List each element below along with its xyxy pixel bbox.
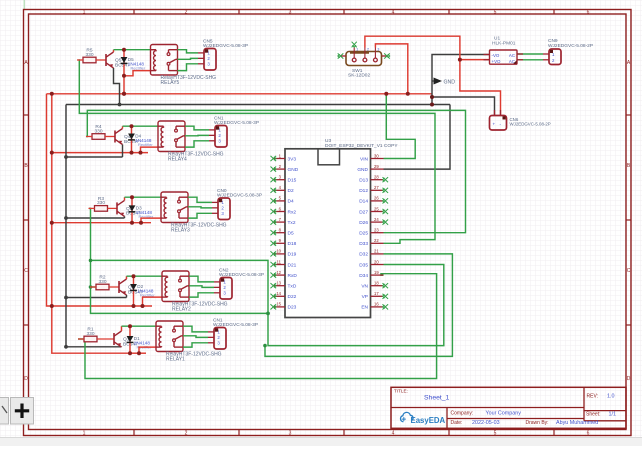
- svg-text:Sheet_1: Sheet_1: [424, 395, 450, 402]
- svg-text:D18: D18: [288, 241, 297, 247]
- svg-text:25: 25: [374, 206, 379, 211]
- svg-text:1: 1: [83, 431, 86, 437]
- svg-text:24: 24: [374, 217, 379, 222]
- svg-text:HLK-PM01: HLK-PM01: [492, 40, 516, 46]
- svg-text:29: 29: [374, 164, 379, 169]
- svg-text:RELAY2: RELAY2: [172, 306, 191, 312]
- svg-text:D19: D19: [288, 252, 297, 258]
- svg-text:REV:: REV:: [587, 394, 598, 400]
- svg-text:WJ2EDGVC-5.08-3P: WJ2EDGVC-5.08-3P: [214, 120, 259, 126]
- svg-text:13: 13: [276, 281, 281, 286]
- svg-text:1/1: 1/1: [609, 412, 617, 418]
- svg-text:Your Company: Your Company: [486, 410, 522, 416]
- svg-text:1: 1: [356, 48, 358, 52]
- svg-text:D12: D12: [359, 188, 368, 194]
- svg-text:D22: D22: [288, 294, 297, 300]
- svg-text:D14: D14: [359, 199, 368, 205]
- svg-text:RELAY5: RELAY5: [161, 80, 180, 86]
- svg-text:330: 330: [85, 52, 93, 58]
- svg-text:AC: AC: [509, 53, 515, 58]
- svg-text:17: 17: [374, 291, 379, 296]
- svg-text:D25: D25: [359, 231, 368, 237]
- svg-text:RxD: RxD: [288, 273, 298, 279]
- svg-text:1.0: 1.0: [607, 394, 615, 400]
- svg-text:3V3: 3V3: [288, 156, 297, 162]
- svg-text:3: 3: [377, 48, 379, 52]
- svg-text:12: 12: [276, 270, 281, 275]
- svg-text:GND: GND: [288, 167, 299, 173]
- svg-text:D: D: [627, 376, 631, 382]
- svg-text:16: 16: [374, 302, 379, 307]
- svg-text:2: 2: [185, 9, 188, 15]
- svg-text:330: 330: [94, 128, 102, 134]
- svg-text:Date:: Date:: [451, 420, 463, 426]
- svg-text:Sheet:: Sheet:: [586, 412, 600, 418]
- svg-text:22: 22: [374, 238, 379, 243]
- svg-text:D2: D2: [288, 188, 294, 194]
- svg-text:10: 10: [276, 249, 281, 254]
- svg-text:2: 2: [367, 48, 369, 52]
- svg-text:19: 19: [374, 270, 379, 275]
- svg-text:D21: D21: [288, 262, 297, 268]
- svg-text:D5: D5: [288, 231, 294, 237]
- svg-text:4: 4: [392, 431, 395, 437]
- svg-text:TxD: TxD: [288, 284, 297, 290]
- svg-text:SK-12D02: SK-12D02: [348, 73, 370, 79]
- svg-text:D26: D26: [359, 220, 368, 226]
- svg-text:VIN: VIN: [360, 156, 369, 162]
- svg-text:6: 6: [587, 9, 590, 15]
- svg-text:WJ2EDGVC-5.08-3P: WJ2EDGVC-5.08-3P: [219, 272, 264, 278]
- svg-text:EasyEDA: EasyEDA: [411, 416, 446, 425]
- svg-text:4: 4: [392, 9, 395, 15]
- svg-text:D33: D33: [359, 241, 368, 247]
- svg-text:+: +: [493, 122, 496, 127]
- svg-text:VP: VP: [362, 294, 368, 300]
- svg-text:2: 2: [185, 431, 188, 437]
- svg-text:D34: D34: [359, 273, 368, 279]
- svg-text:Drawn By:: Drawn By:: [526, 420, 549, 426]
- svg-text:Rectifier: Rectifier: [131, 66, 146, 71]
- svg-text:TITLE:: TITLE:: [394, 389, 408, 394]
- svg-text:15: 15: [276, 302, 281, 307]
- svg-text:D27: D27: [359, 209, 368, 215]
- svg-text:D35: D35: [359, 262, 368, 268]
- svg-text:WJ2EDGVC-5.08-3P: WJ2EDGVC-5.08-3P: [217, 192, 262, 198]
- svg-text:28: 28: [374, 175, 379, 180]
- svg-text:2022-05-03: 2022-05-03: [472, 420, 500, 426]
- svg-text:Tx2: Tx2: [288, 220, 296, 226]
- svg-text:6: 6: [587, 431, 590, 437]
- svg-text:WJ2EDGVC-5.08-2P: WJ2EDGVC-5.08-2P: [548, 43, 593, 49]
- svg-text:C: C: [24, 268, 28, 274]
- svg-text:U3: U3: [325, 138, 331, 144]
- svg-text:Abyu Muhammed: Abyu Muhammed: [556, 420, 598, 426]
- svg-text:GND: GND: [357, 167, 368, 173]
- svg-text:GND: GND: [444, 79, 456, 85]
- svg-text:27: 27: [374, 185, 379, 190]
- svg-text:3: 3: [289, 431, 292, 437]
- svg-text:WJ2EDGVC-5.08-3P: WJ2EDGVC-5.08-3P: [213, 322, 258, 328]
- svg-text:D4: D4: [288, 199, 294, 205]
- svg-text:5: 5: [494, 9, 497, 15]
- svg-text:D23: D23: [288, 305, 297, 311]
- svg-text:+VO: +VO: [492, 59, 501, 64]
- svg-text:RELAY1: RELAY1: [166, 356, 185, 362]
- svg-text:WJ2EDGVC-5.08-2P: WJ2EDGVC-5.08-2P: [510, 122, 551, 127]
- svg-text:C: C: [627, 268, 631, 274]
- svg-text:DOIT_ESP32_DEVKIT_V1 COPY: DOIT_ESP32_DEVKIT_V1 COPY: [325, 143, 398, 149]
- svg-text:RELAY3: RELAY3: [171, 227, 190, 233]
- svg-text:30: 30: [374, 153, 379, 158]
- svg-text:20: 20: [374, 259, 379, 264]
- svg-text:330: 330: [97, 200, 105, 206]
- svg-text:11: 11: [277, 259, 282, 264]
- svg-text:21: 21: [374, 249, 379, 254]
- svg-text:D13: D13: [359, 178, 368, 184]
- svg-text:18: 18: [374, 281, 379, 286]
- svg-text:WJ2EDGVC-5.08-3P: WJ2EDGVC-5.08-3P: [203, 43, 248, 49]
- svg-text:3: 3: [289, 9, 292, 15]
- svg-text:330: 330: [98, 279, 106, 285]
- svg-text:1: 1: [83, 9, 86, 15]
- svg-text:D15: D15: [288, 178, 297, 184]
- svg-text:-VO: -VO: [492, 53, 500, 58]
- svg-text:5: 5: [494, 431, 497, 437]
- svg-text:Rectifier: Rectifier: [138, 142, 153, 147]
- svg-text:26: 26: [374, 196, 379, 201]
- svg-text:23: 23: [374, 228, 379, 233]
- svg-text:VN: VN: [361, 284, 368, 290]
- svg-text:Rx2: Rx2: [288, 209, 297, 215]
- svg-text:D: D: [24, 376, 28, 382]
- svg-text:EN: EN: [361, 305, 368, 311]
- svg-text:D32: D32: [359, 252, 368, 258]
- svg-text:14: 14: [276, 291, 281, 296]
- svg-text:Company:: Company:: [451, 410, 474, 416]
- svg-text:330: 330: [86, 331, 94, 337]
- svg-text:RELAY4: RELAY4: [168, 156, 187, 162]
